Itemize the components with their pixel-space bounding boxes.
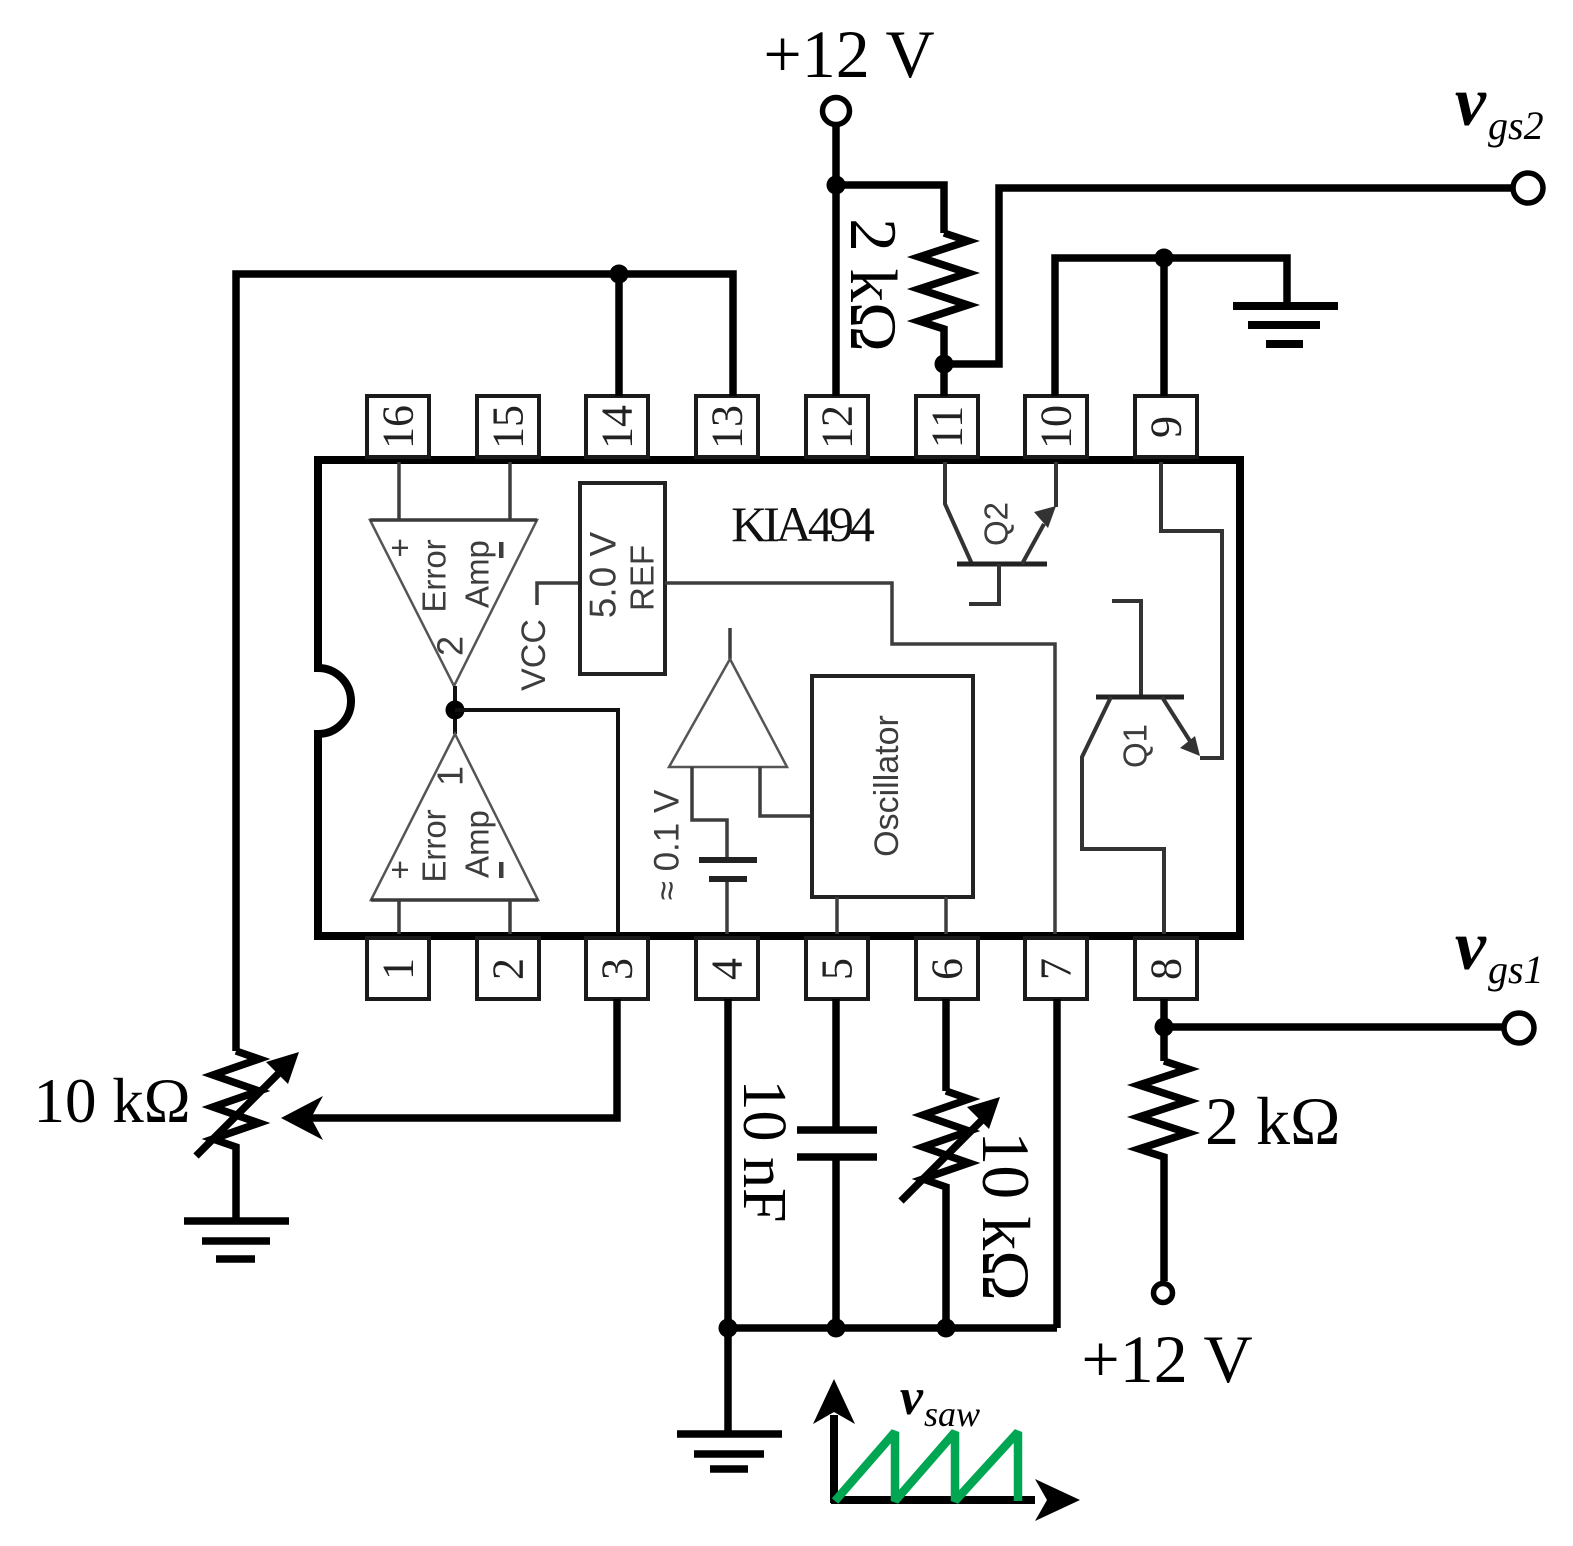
- wire comparator right input to oscillator: [760, 767, 812, 816]
- svg-text:10 kΩ: 10 kΩ: [968, 1131, 1044, 1301]
- wire pin 10 to ground rail: [1055, 258, 1287, 396]
- svg-text:Amp: Amp: [459, 810, 496, 878]
- wire pin 7 to rail: [1053, 999, 1061, 1328]
- transistor Q2: [945, 462, 1056, 604]
- node junction pin9 wire: [1155, 249, 1174, 268]
- terminal +12V top circle: [823, 98, 850, 125]
- svg-text:11: 11: [923, 406, 972, 448]
- node junction C1/rail: [827, 1319, 846, 1338]
- op-amp error amp 1 triangle: [371, 734, 538, 900]
- wire +12V junction to resistor R1 top: [836, 185, 944, 233]
- svg-text:4: 4: [703, 958, 752, 980]
- pin 8 box: [1135, 938, 1197, 999]
- pin 13 box: [696, 396, 758, 457]
- svg-text:v: v: [1455, 908, 1487, 985]
- wire pin 9 stub: [1160, 258, 1168, 396]
- svg-text:Oscillator: Oscillator: [868, 715, 906, 857]
- wire R1 bottom to pin 11: [940, 364, 948, 396]
- svg-text:2 kΩ: 2 kΩ: [836, 218, 910, 352]
- wire pin 3 to wiper arrow: [310, 999, 617, 1118]
- box 5.0V REF: [580, 483, 665, 674]
- ground symbol bottom: [677, 1434, 782, 1469]
- pin numbers bottom row: [374, 958, 1191, 980]
- box Oscillator: [812, 676, 973, 897]
- pin 1 box: [367, 938, 429, 999]
- svg-text:2: 2: [484, 958, 533, 980]
- wire +12V to pin 12: [832, 125, 840, 396]
- pin 4 box: [696, 938, 758, 999]
- svg-text:REF: REF: [624, 545, 661, 611]
- svg-text:Error: Error: [416, 539, 453, 612]
- pin 3 box: [586, 938, 648, 999]
- wire pin 8 junction to resistor R2: [1160, 1027, 1168, 1061]
- op-amp U1 IC body KIA494 with notch: [318, 460, 1240, 936]
- wire REF output to pin 7: [665, 583, 1055, 934]
- wire pin15 to error amp 2 - input: [508, 462, 512, 521]
- waveform vsaw green sawtooth: [835, 1432, 1018, 1501]
- pin 2 box: [477, 938, 539, 999]
- terminal vgs2 circle: [1513, 173, 1543, 203]
- svg-text:5: 5: [813, 958, 862, 980]
- svg-text:1: 1: [430, 766, 471, 786]
- wire top feedback: pin13/pin14 to left rail: [236, 274, 733, 1051]
- svg-text:8: 8: [1142, 958, 1191, 980]
- node junction pin 8: [1155, 1018, 1174, 1037]
- node junction P2/rail: [937, 1319, 956, 1338]
- svg-text:10 kΩ: 10 kΩ: [33, 1066, 190, 1136]
- wire offset capacitor to pin 4: [725, 882, 729, 934]
- op-amp error amp 2 triangle: [370, 520, 537, 686]
- svg-text:Q1: Q1: [1117, 724, 1154, 768]
- svg-text:12: 12: [813, 405, 862, 449]
- wire oscillator to pin 5: [835, 897, 839, 934]
- svg-text:13: 13: [703, 405, 752, 449]
- pin 6 box: [916, 938, 978, 999]
- node junction R1 bottom / pin 11: [935, 355, 954, 374]
- sawtooth plot y-axis: [830, 1415, 838, 1503]
- svg-text:Amp: Amp: [459, 540, 496, 608]
- svg-text:9: 9: [1142, 416, 1191, 438]
- svg-text:saw: saw: [924, 1394, 980, 1434]
- node junction +12V: [827, 176, 846, 195]
- comparator triangle with stem: [728, 628, 732, 659]
- potentiometer P1 10k zigzag: [213, 1051, 259, 1219]
- svg-text:v: v: [1455, 64, 1487, 141]
- wire error amp 1 + input to pin 1: [397, 900, 401, 934]
- svg-text:15: 15: [484, 405, 533, 449]
- svg-text:Error: Error: [416, 809, 453, 882]
- svg-text:2: 2: [430, 636, 471, 656]
- ground symbol left: [184, 1221, 289, 1259]
- svg-text:+: +: [390, 851, 409, 888]
- svg-text:2 kΩ: 2 kΩ: [1205, 1083, 1341, 1159]
- wire pin 4 to bottom rail: [724, 999, 732, 1328]
- pin 12 box: [806, 396, 868, 457]
- svg-text:≈ 0.1 V: ≈ 0.1 V: [648, 789, 687, 900]
- sawtooth plot x-axis: [831, 1496, 1035, 1504]
- terminal +12V bottom circle: [1154, 1284, 1173, 1303]
- pin boxes bottom row 1..8: [367, 938, 1197, 999]
- pin numbers top row: [374, 405, 1191, 449]
- wire junction to pin 3: [455, 710, 618, 934]
- svg-text:+12 V: +12 V: [1081, 1321, 1252, 1397]
- wire pin 14 stub: [615, 274, 623, 396]
- pin 11 box: [916, 396, 978, 457]
- node junction on top feedback wire: [610, 265, 629, 284]
- wire pin 8 to vgs1 terminal: [1164, 999, 1518, 1027]
- potentiometer P1 arrow: [196, 1071, 281, 1156]
- wire R1 bottom junction to vgs2 terminal: [944, 188, 1527, 364]
- wire pin 6 to potentiometer P2: [942, 999, 950, 1091]
- wire rail to ground bottom: [724, 1328, 732, 1431]
- wire capacitor C1 to rail: [832, 1160, 840, 1328]
- transistor Q1: [1082, 462, 1222, 934]
- svg-text:Q2: Q2: [978, 502, 1015, 546]
- svg-text:+12 V: +12 V: [763, 16, 934, 92]
- svg-text:VCC: VCC: [515, 619, 553, 691]
- potentiometer P2 arrow: [901, 1120, 982, 1201]
- pin 10 box: [1025, 396, 1087, 457]
- svg-text:gs1: gs1: [1488, 947, 1544, 992]
- pin 15 box: [477, 396, 539, 457]
- node junction of error amp outputs: [453, 686, 457, 734]
- svg-text:KIA494: KIA494: [731, 496, 875, 552]
- svg-text:v: v: [900, 1369, 924, 1426]
- capacitor C1 10nF plates: [797, 1126, 877, 1134]
- svg-text:7: 7: [1032, 958, 1081, 980]
- svg-text:16: 16: [374, 405, 423, 449]
- label - of error amp 2: [499, 542, 504, 558]
- node junction pin4/rail: [719, 1319, 738, 1338]
- svg-text:10 nF: 10 nF: [730, 1080, 798, 1223]
- pin 5 box: [806, 938, 868, 999]
- wire VCC tick: [537, 583, 580, 605]
- svg-text:6: 6: [923, 958, 972, 980]
- wire comparator left input to offset capacitor: [692, 767, 727, 857]
- wire error amp 1 - input to pin 2: [508, 900, 512, 934]
- svg-text:5.0 V: 5.0 V: [583, 531, 624, 618]
- pin 7 box: [1025, 938, 1087, 999]
- arrowhead wiper: [281, 1096, 323, 1140]
- terminal vgs1 circle: [1504, 1013, 1534, 1043]
- pin 14 box: [586, 396, 648, 457]
- label - of error amp 1: [499, 862, 504, 878]
- wire pin 5 to capacitor C1: [832, 999, 840, 1128]
- wire oscillator to pin 6: [944, 897, 948, 934]
- bottom rail wire: [728, 1324, 1057, 1332]
- pin boxes top row 16..9: [367, 396, 1197, 457]
- svg-text:14: 14: [593, 405, 642, 449]
- svg-text:3: 3: [593, 958, 642, 980]
- svg-text:+: +: [390, 529, 409, 566]
- svg-text:1: 1: [374, 958, 423, 980]
- svg-text:10: 10: [1032, 405, 1081, 449]
- svg-text:gs2: gs2: [1488, 103, 1544, 148]
- resistor R2 2k zigzag: [1139, 1061, 1188, 1281]
- potentiometer P2 10k zigzag: [923, 1091, 969, 1328]
- pin 16 box: [367, 396, 429, 457]
- capacitor offset internal: [699, 857, 757, 863]
- ground symbol top right: [1233, 306, 1338, 344]
- pin 9 box: [1135, 396, 1197, 457]
- wire pin16 to error amp 2 + input: [397, 462, 401, 521]
- resistor R1 2k zigzag: [919, 233, 968, 364]
